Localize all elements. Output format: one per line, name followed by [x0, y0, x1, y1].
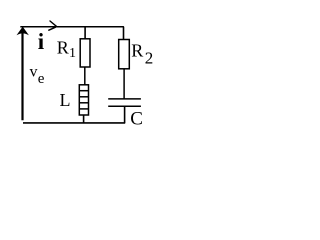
svg-text:e: e — [38, 71, 45, 87]
svg-text:2: 2 — [145, 49, 154, 68]
svg-text:L: L — [60, 90, 71, 110]
inductor L — [79, 85, 88, 115]
wire C to bottom rail — [124, 106, 126, 123]
current arrow i — [49, 21, 57, 30]
wire bottom rail — [23, 122, 125, 124]
wire top right corner down to R2 — [123, 27, 125, 40]
svg-text:1: 1 — [69, 46, 76, 61]
wire R1 top stub — [84, 27, 86, 39]
wire R1 to L — [84, 67, 86, 85]
voltage arrow ve shaft — [21, 30, 23, 121]
svg-text:R: R — [131, 40, 143, 60]
resistor R2 — [119, 40, 130, 69]
svg-text:v: v — [30, 64, 38, 81]
voltage arrow ve head — [17, 27, 29, 36]
svg-text:C: C — [130, 109, 143, 130]
svg-text:i: i — [38, 29, 45, 54]
wire R2 to C — [123, 69, 125, 99]
capacitor C bottom plate — [108, 105, 141, 107]
wire top rail — [20, 26, 124, 28]
wire L bottom stub — [83, 115, 85, 123]
resistor R1 — [80, 39, 90, 67]
svg-text:R: R — [57, 38, 69, 58]
capacitor C top plate — [108, 98, 141, 100]
